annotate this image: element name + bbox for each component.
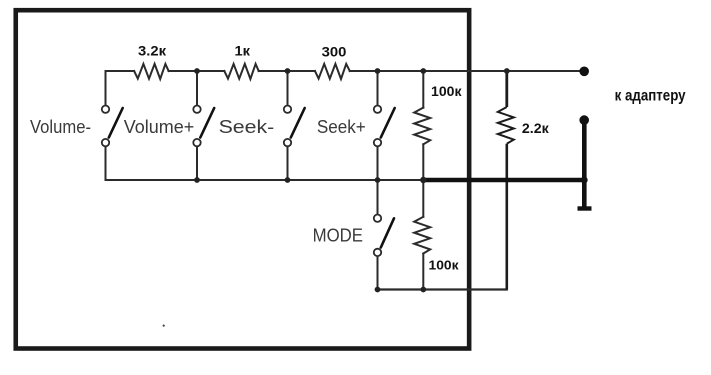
svg-text:Volume-: Volume- xyxy=(30,117,91,137)
svg-text:к адаптеру: к адаптеру xyxy=(615,87,686,104)
svg-text:2.2к: 2.2к xyxy=(522,120,550,136)
svg-text:100к: 100к xyxy=(429,259,460,273)
svg-text:MODE: MODE xyxy=(313,225,363,245)
svg-text:1к: 1к xyxy=(235,42,252,58)
svg-text:300: 300 xyxy=(322,44,347,60)
svg-text:3.2к: 3.2к xyxy=(138,43,167,59)
svg-text:Seek-: Seek- xyxy=(219,117,275,137)
svg-text:Volume+: Volume+ xyxy=(124,117,195,137)
svg-text:Seek+: Seek+ xyxy=(317,117,366,137)
svg-text:100к: 100к xyxy=(431,83,462,99)
